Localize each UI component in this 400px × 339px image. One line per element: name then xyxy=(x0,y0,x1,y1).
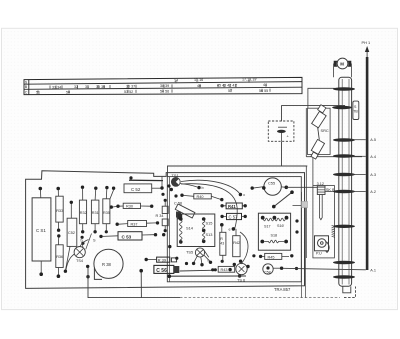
capacitor C56 trimmer xyxy=(174,200,195,218)
capacitor C53 xyxy=(99,232,165,240)
IF sub-board outline xyxy=(167,177,301,282)
svg-text:14: 14 xyxy=(174,79,178,83)
svg-text:53 52: 53 52 xyxy=(124,90,133,94)
resistor R39 xyxy=(145,257,177,262)
capacitor C58 xyxy=(263,264,284,275)
node pad board edge upper xyxy=(168,245,171,248)
svg-text:C 52: C 52 xyxy=(131,187,141,192)
wire battery drop xyxy=(281,105,283,166)
node pad TS5 lead a xyxy=(185,262,188,265)
svg-text:TRA 857: TRA 857 xyxy=(274,287,291,292)
spring coil xyxy=(332,225,335,237)
node b xyxy=(197,186,200,189)
right assembly outer frame xyxy=(306,108,362,258)
resistor R45 xyxy=(259,253,294,259)
capacitor C55 xyxy=(251,178,289,195)
node pad right edge lower xyxy=(295,230,298,233)
main PCB outline xyxy=(26,171,305,289)
svg-text:M: M xyxy=(340,61,344,66)
node pad TS5 lead d xyxy=(209,261,212,264)
svg-text:C 57: C 57 xyxy=(229,215,239,220)
resistor R32 xyxy=(79,186,86,234)
resistor R36 xyxy=(56,238,63,279)
transistor TS6 xyxy=(228,260,249,283)
svg-text:15,16: 15,16 xyxy=(194,78,203,82)
dial tick marks xyxy=(38,80,270,94)
svg-text:57: 57 xyxy=(228,89,232,93)
svg-text:R43: R43 xyxy=(221,268,228,272)
svg-text:TS5: TS5 xyxy=(186,249,193,254)
svg-text:R42: R42 xyxy=(233,241,240,245)
node A5 xyxy=(352,139,366,141)
svg-text:51: 51 xyxy=(36,91,40,95)
svg-text:C58: C58 xyxy=(264,271,271,275)
transistor TS1 xyxy=(171,173,180,186)
node A2 xyxy=(352,191,366,193)
motor M xyxy=(334,58,352,77)
wire TS4 top to S xyxy=(80,240,89,247)
node pad below R32 xyxy=(81,236,84,239)
svg-text:SRC: SRC xyxy=(321,128,329,133)
wire jumper diagonal xyxy=(272,190,294,208)
svg-text:R 38: R 38 xyxy=(102,262,112,267)
node pad right lower corner xyxy=(295,267,298,270)
wire A1 long xyxy=(283,268,366,270)
wire dial outline xyxy=(24,77,302,94)
svg-text:TS 6: TS 6 xyxy=(237,277,245,282)
wire right verticals xyxy=(302,192,306,298)
node A4 xyxy=(352,155,366,157)
svg-text:38 39: 38 39 xyxy=(160,84,169,88)
svg-text:A.2: A.2 xyxy=(370,190,376,194)
resistor R30 xyxy=(116,203,153,208)
wire pad to R30 xyxy=(113,205,117,208)
svg-text:S15: S15 xyxy=(206,221,213,226)
wire PCB to SKB xyxy=(286,187,317,205)
wire bar above C52 xyxy=(129,179,163,181)
svg-text:36 37: 36 37 xyxy=(126,85,135,89)
pickup PU box xyxy=(313,186,335,258)
strip clamps xyxy=(332,87,355,278)
capacitor C52 left xyxy=(64,201,77,273)
svg-text:17,18,19′: 17,18,19′ xyxy=(242,78,257,82)
wire dashed to rod bottom xyxy=(344,287,356,298)
SRC switch assembly xyxy=(308,88,335,159)
svg-text:R31: R31 xyxy=(92,211,99,215)
svg-text:40: 40 xyxy=(197,84,201,88)
capacitor C52 top xyxy=(124,184,173,193)
svg-text:S13: S13 xyxy=(206,232,213,237)
resistor R33 xyxy=(56,187,63,238)
wire strip bottom cup xyxy=(343,286,351,292)
svg-text:b: b xyxy=(202,186,204,190)
node pad right edge upper xyxy=(295,219,298,222)
svg-text:R36: R36 xyxy=(56,255,63,259)
node pad board edge mid xyxy=(175,257,178,260)
svg-text:R40: R40 xyxy=(197,195,204,199)
wire R42 right loop xyxy=(240,232,248,264)
svg-text:e: e xyxy=(229,227,231,231)
coil box S TB xyxy=(353,101,359,119)
wire dial row line 2 xyxy=(24,87,302,89)
IF can S17 S16 S18 xyxy=(258,213,290,250)
svg-text:43: 43 xyxy=(220,242,224,246)
resistor R34 xyxy=(156,199,169,233)
svg-text:S14: S14 xyxy=(186,226,194,231)
IF sub-board inner edge line xyxy=(169,177,171,282)
svg-text:32: 32 xyxy=(74,85,78,89)
capacitor CS1 xyxy=(32,187,51,276)
node pad junction 141 xyxy=(139,269,143,273)
wire CS2 bottom to TS4 xyxy=(66,254,75,270)
potentiometer R38 xyxy=(94,249,123,279)
wire TS5 leads xyxy=(194,250,210,264)
switch SKB xyxy=(317,182,335,220)
svg-text:c: c xyxy=(243,193,245,197)
dial scale assembly xyxy=(24,77,302,94)
label TRA 857 xyxy=(169,275,246,277)
svg-text:C55: C55 xyxy=(268,181,275,186)
svg-text:A.3: A.3 xyxy=(370,173,376,177)
wire TS1 to c arc xyxy=(181,180,239,193)
svg-text:R33: R33 xyxy=(56,209,63,213)
resistor R37 xyxy=(116,221,160,227)
svg-text:A.4: A.4 xyxy=(370,155,376,159)
resistor R35 xyxy=(103,186,116,233)
node pad TS1 base xyxy=(167,184,170,187)
resistor R41 xyxy=(220,203,246,209)
svg-text:C 53: C 53 xyxy=(122,234,132,239)
svg-text:TB: TB xyxy=(353,110,358,114)
svg-text:45 43 42 41′: 45 43 42 41′ xyxy=(217,84,237,88)
wire battery top run xyxy=(282,104,346,106)
svg-text:R32: R32 xyxy=(80,211,87,215)
svg-text:R35: R35 xyxy=(103,211,110,215)
svg-text:b: b xyxy=(81,239,83,243)
node c xyxy=(239,193,242,196)
node A3 xyxy=(352,174,366,176)
resistor R42 vertical xyxy=(229,227,241,257)
wire pad162 to edge xyxy=(161,177,163,187)
svg-text:R37: R37 xyxy=(131,222,138,226)
svg-text:R45: R45 xyxy=(268,255,275,259)
node pad TS5 lead c xyxy=(200,263,203,266)
node pad left of R45 xyxy=(252,254,255,257)
wire under PCB xyxy=(88,268,180,298)
node pad R38 left lower xyxy=(86,275,89,278)
svg-text:R41: R41 xyxy=(228,204,236,209)
svg-text:A.1: A.1 xyxy=(370,269,376,273)
resistor R40 xyxy=(180,194,223,202)
capacitor C56 block xyxy=(154,265,179,273)
wire dial row line 1 xyxy=(24,82,302,85)
capacitor C57 xyxy=(220,213,246,219)
node pad R35 right xyxy=(110,205,113,208)
wire assembly frame left vertical xyxy=(312,157,314,186)
svg-text:54 56: 54 56 xyxy=(160,90,169,94)
resistor R31 xyxy=(91,187,99,234)
svg-text:C S1: C S1 xyxy=(36,228,46,233)
svg-text:50: 50 xyxy=(66,90,70,94)
svg-text:R: R xyxy=(220,237,223,241)
transistor TS5 xyxy=(186,248,205,257)
svg-text:R 34: R 34 xyxy=(156,214,164,218)
wire dial letter divider xyxy=(28,80,30,95)
svg-text:33,34: 33,34 xyxy=(52,85,61,89)
node pad left of board edge xyxy=(161,193,164,196)
connector gray bar xyxy=(302,201,308,207)
transistor TS4 xyxy=(74,234,96,263)
node pad below TS1 xyxy=(174,194,177,197)
svg-text:35 30: 35 30 xyxy=(96,85,105,89)
svg-text:31: 31 xyxy=(85,85,89,89)
wire top run xyxy=(168,166,308,177)
svg-text:PH 1: PH 1 xyxy=(362,40,371,45)
svg-text:TS4: TS4 xyxy=(76,259,83,263)
svg-text:56 55: 56 55 xyxy=(259,89,268,93)
wire C56 to R43 area xyxy=(180,269,217,272)
node pad R43 left xyxy=(214,268,217,271)
wire TS1 to e long arc xyxy=(181,184,237,231)
tuning rod strip xyxy=(339,77,352,286)
svg-text:A.5: A.5 xyxy=(370,138,376,142)
wire TS1 to b xyxy=(180,184,197,188)
node pad TS5 lead b xyxy=(192,262,195,265)
node pad R38 left upper xyxy=(86,265,89,268)
svg-text:S16′: S16′ xyxy=(277,224,285,228)
svg-text:C 56: C 56 xyxy=(156,268,167,274)
svg-text:44: 44 xyxy=(263,83,267,87)
antenna PH1 xyxy=(362,40,371,270)
svg-text:S18: S18 xyxy=(271,233,278,237)
svg-text:R 39: R 39 xyxy=(158,257,167,262)
battery dashed box xyxy=(268,121,294,141)
svg-text:C52: C52 xyxy=(68,231,75,235)
wire SKB to strip xyxy=(325,190,334,192)
resistor R44 xyxy=(218,266,235,272)
svg-text:S17: S17 xyxy=(264,225,271,229)
svg-text:P.U: P.U xyxy=(316,252,322,256)
IF can S14 S15 S13 xyxy=(177,214,215,247)
resistor R43 vertical xyxy=(220,223,226,263)
svg-text:C: C xyxy=(25,90,28,94)
svg-text:R30: R30 xyxy=(126,205,133,209)
node pad top edge xyxy=(129,176,132,179)
